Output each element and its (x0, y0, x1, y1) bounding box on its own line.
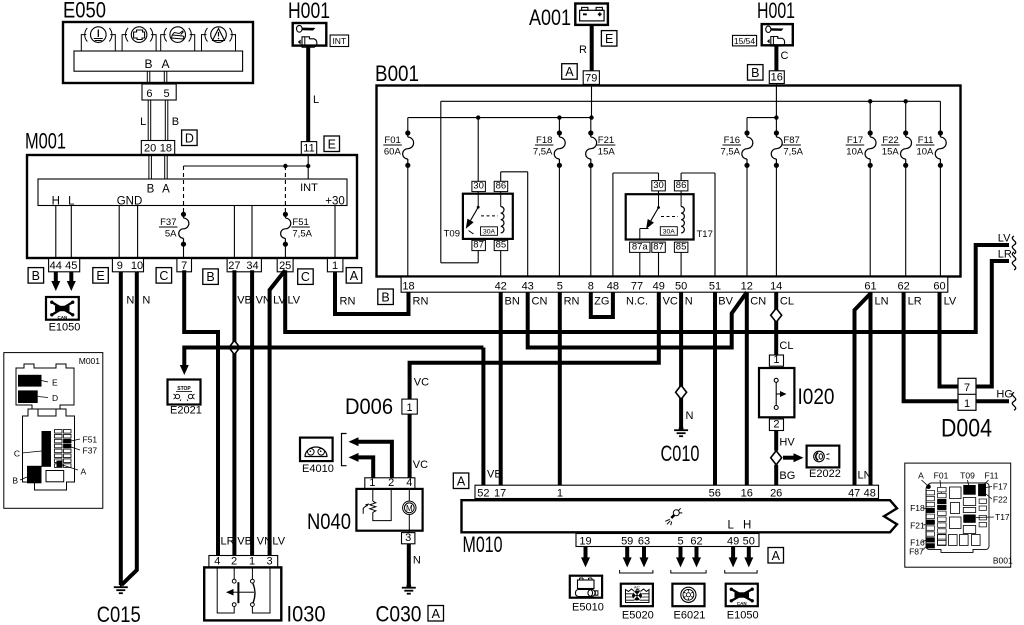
switch I020 pin box 2 (769, 419, 783, 431)
fuse F11 10A (916, 101, 946, 277)
fuse F17 10A (846, 101, 876, 277)
svg-text:86: 86 (676, 180, 687, 191)
svg-text:BN: BN (505, 296, 520, 308)
E050 telltale engine circle (122, 27, 156, 51)
svg-text:CL: CL (780, 296, 794, 308)
M001 label +30 (325, 196, 345, 208)
svg-text:4: 4 (214, 555, 220, 567)
svg-text:M001: M001 (25, 129, 66, 154)
wire VC B001 pin 49 to D006 (410, 292, 678, 399)
E050 telltale warn circle (202, 27, 236, 51)
svg-text:12: 12 (741, 280, 753, 292)
svg-text:LR: LR (998, 249, 1012, 261)
connector letter A (pin 79) (562, 64, 578, 79)
node E6021 compressor box (672, 584, 704, 607)
E050 telltale temp circle (81, 27, 115, 51)
M001 inset F37 pointer (71, 446, 97, 456)
wire T17 pin 87 to B001 pin 49 (658, 252, 660, 277)
svg-text:HV: HV (779, 437, 795, 449)
svg-text:2: 2 (231, 555, 237, 567)
wire arrow M010 pin 59 (623, 547, 632, 568)
B001 inset label T17 with pointer (976, 512, 1010, 522)
H001 key symbol box (left) (293, 23, 327, 47)
junction diamond VB net (229, 341, 240, 355)
wire N from M001 pin 9 to ground C015 (121, 272, 135, 585)
module M010 bottom pin strip (576, 534, 759, 548)
svg-text:87: 87 (473, 240, 484, 251)
svg-text:M010: M010 (463, 532, 503, 557)
node E4010 box (300, 438, 333, 462)
fuse F18 7,5A (533, 118, 565, 277)
relay T09 pin box 86 (494, 181, 508, 192)
module N040 box (356, 489, 422, 531)
wire arrow M010 pin 5 (676, 547, 685, 568)
module M010 top pin strip (475, 485, 879, 499)
svg-text:45: 45 (65, 260, 77, 272)
svg-text:VB: VB (237, 536, 252, 548)
wire VB branch to E2021 with arrow (180, 348, 484, 376)
svg-text:F01: F01 (934, 471, 949, 481)
B001 inset label A with pointer (918, 471, 931, 490)
fuse F16 7,5A (720, 130, 752, 277)
svg-text:1: 1 (249, 555, 255, 567)
svg-text:N040: N040 (307, 509, 351, 534)
svg-text:86: 86 (496, 181, 507, 192)
svg-text:VC: VC (663, 296, 678, 308)
M001 label L (68, 196, 75, 208)
svg-text:60: 60 (933, 280, 945, 292)
bracket pins 49-50 (725, 570, 757, 573)
svg-text:B: B (381, 290, 389, 304)
E2022 label (809, 468, 841, 480)
svg-text:INT: INT (300, 182, 318, 194)
svg-text:F17: F17 (993, 482, 1008, 492)
B001 inset title (993, 556, 1013, 566)
M001 inset main connector outline (23, 409, 75, 490)
fuse F87 7,5A (771, 130, 803, 277)
connector letter E (pin 11) (324, 136, 340, 152)
module N040 pin box 1 2 4 (365, 477, 415, 489)
bracket pins 59-63 (620, 570, 653, 573)
device H001 ignition switch label (left) (288, 0, 330, 23)
svg-text:C: C (781, 50, 789, 62)
wire LR from off-page to D004 pin 7 (976, 249, 1016, 387)
svg-text:6: 6 (146, 88, 152, 100)
B001 wire pin 16 to fuses F16 F87 (747, 84, 779, 134)
svg-text:A: A (457, 474, 466, 488)
svg-text:H: H (743, 520, 751, 532)
connector letter B (RN link) (378, 289, 394, 305)
module M001 box (27, 155, 357, 258)
svg-text:5: 5 (163, 88, 169, 100)
connector letter C (M001 pin 7) (156, 268, 172, 284)
B001 inset label F22 with pointer (986, 494, 1008, 505)
wire LN B001 pin 61 to M010 pin 48 (fork) (871, 292, 889, 485)
svg-text:30: 30 (473, 181, 484, 192)
wire T17 pin 87a to B001 pin 77 (639, 252, 641, 277)
B001 internal bus from battery pin 79 (408, 84, 594, 119)
svg-text:M: M (406, 504, 413, 513)
wire T17 pin 30 to B001 pin 48 (613, 173, 659, 277)
svg-text:E: E (605, 32, 613, 46)
wire LN fork branch to M010 pin 47 (855, 294, 872, 486)
wire 5 to M001 pin 18 (double), label B (165, 100, 179, 141)
M001 inner connector rect (38, 179, 347, 206)
svg-text:M001: M001 (79, 356, 101, 366)
I030 internals (217, 568, 270, 613)
B001 inset fuse elements (926, 484, 986, 548)
svg-text:B001: B001 (375, 61, 419, 86)
svg-text:E4010: E4010 (302, 463, 334, 475)
svg-text:E: E (96, 269, 104, 283)
relay T09 box (463, 194, 513, 239)
N040 internals motor (403, 489, 416, 533)
M001 INT feed wire from pin 11 (307, 155, 309, 179)
junction diamond on CL wire (771, 308, 782, 322)
wire C H001 to B001 pin 16 (776, 45, 788, 71)
svg-text:79: 79 (585, 72, 597, 84)
svg-text:B: B (32, 269, 40, 283)
svg-text:A: A (432, 607, 441, 621)
node E1050 CAN junction (left) (46, 297, 79, 320)
svg-text:30: 30 (653, 180, 664, 191)
svg-text:F11: F11 (984, 471, 998, 481)
wire HV I020 pin 2 to diamond (776, 431, 795, 451)
svg-text:85: 85 (676, 241, 687, 252)
svg-text:F21: F21 (598, 135, 614, 146)
svg-text:CL: CL (779, 340, 793, 352)
junction diamond on N wire (676, 385, 687, 399)
svg-text:43: 43 (522, 280, 534, 292)
device H001 ignition switch label (right) (757, 0, 795, 23)
fuse F01 60A (383, 118, 413, 277)
svg-text:30A: 30A (483, 229, 496, 236)
svg-text:L: L (313, 94, 319, 106)
connector letter D (182, 130, 198, 146)
svg-text:5: 5 (557, 280, 563, 292)
relay T17 internals (640, 191, 685, 240)
ground C010 label (661, 441, 700, 466)
svg-text:VC: VC (413, 459, 428, 471)
svg-text:48: 48 (864, 487, 876, 499)
svg-text:60A: 60A (384, 147, 402, 158)
label N near ground (686, 410, 694, 422)
M001 inset part B (12, 466, 41, 486)
relay T09 pin box 30 (472, 181, 486, 192)
wire arrow M010 pin 63 (640, 547, 649, 568)
wire arrow N040 pin 2 to E4010 (349, 437, 392, 478)
svg-text:B: B (144, 57, 152, 71)
svg-text:3: 3 (405, 532, 411, 544)
wire E050 A to pin 5 (double) (164, 71, 167, 84)
svg-text:E: E (328, 137, 336, 151)
svg-text:H001: H001 (288, 0, 330, 23)
M001 internal stubs to bottom pins (56, 206, 335, 259)
relay T17 pin box 87 (652, 241, 666, 252)
wire VN from M001 pin 34 to I030 pin 1 (252, 270, 272, 555)
M001 label INT (300, 182, 318, 194)
M001 label H (52, 196, 60, 208)
svg-text:VB: VB (487, 469, 502, 481)
connector letter A (M010 pin 52) (453, 473, 469, 489)
svg-text:RN: RN (340, 296, 356, 308)
device A001 battery label (529, 5, 571, 30)
svg-text:85: 85 (496, 240, 507, 251)
node E2022 buzzer box (807, 446, 840, 468)
svg-text:44: 44 (50, 260, 62, 272)
M001 inset top connector outline (16, 364, 74, 409)
svg-text:CAN: CAN (737, 601, 747, 606)
svg-text:N: N (686, 410, 694, 422)
connector letter E (M001 pins 9-10) (93, 268, 109, 284)
bracket to E4010 (342, 434, 347, 466)
wire BN B001 pin 42 to M010 pin 17 (501, 292, 520, 485)
device E050 box (63, 22, 253, 83)
svg-text:E: E (52, 378, 58, 388)
svg-text:RN: RN (413, 296, 429, 308)
M001 inset F51 pointer (71, 435, 97, 445)
connector letter C (M001 pin 25) (298, 269, 314, 285)
svg-text:30A: 30A (663, 229, 676, 236)
switch I030 label (287, 602, 326, 625)
wire arrow pin 44 to E1050 (51, 272, 60, 291)
15/54 label box (733, 35, 757, 46)
svg-text:F37: F37 (83, 446, 98, 456)
svg-text:I020: I020 (798, 384, 835, 409)
svg-text:D: D (185, 131, 194, 145)
relay T09 pin box 87 (472, 240, 486, 251)
svg-text:62: 62 (690, 535, 702, 547)
wire BG diamond to M010 pin 26 (776, 465, 795, 486)
svg-text:87a: 87a (632, 241, 649, 252)
svg-text:B: B (751, 66, 759, 80)
bracket pins 5-62 (671, 570, 706, 573)
svg-text:CN: CN (750, 296, 766, 308)
M001 inset part A (57, 461, 87, 477)
M001 inset title (79, 356, 101, 366)
svg-text:E5020: E5020 (622, 610, 654, 622)
svg-text:RN: RN (564, 296, 580, 308)
svg-text:63: 63 (638, 535, 650, 547)
svg-text:50: 50 (743, 535, 755, 547)
switch I020 internals (774, 378, 786, 409)
svg-text:F21: F21 (910, 521, 925, 531)
M001 pin box 25 (277, 259, 293, 272)
svg-text:19: 19 (579, 535, 591, 547)
B001 pin box 79 (583, 71, 599, 85)
svg-text:34: 34 (246, 260, 258, 272)
svg-text:A: A (162, 184, 170, 196)
svg-text:27: 27 (228, 260, 240, 272)
svg-text:2: 2 (388, 477, 394, 489)
svg-text:T09: T09 (960, 471, 975, 481)
svg-text:N.C.: N.C. (626, 296, 648, 308)
M001 pin box 9 10 (112, 259, 143, 272)
svg-text:18: 18 (402, 280, 414, 292)
wire HG from D004 pin 1 to off-page (976, 389, 1016, 411)
svg-text:C030: C030 (376, 602, 422, 625)
M001 inset white part (46, 471, 64, 482)
svg-text:F22: F22 (882, 135, 898, 146)
fuse F51 7,5A (281, 212, 313, 247)
svg-text:7,5A: 7,5A (533, 147, 553, 158)
module M010 box with torn edge (462, 500, 898, 532)
svg-text:HG: HG (996, 389, 1013, 401)
svg-text:I030: I030 (287, 602, 326, 625)
H001 key symbol box (right) (762, 24, 793, 46)
connector D006 label (345, 394, 393, 419)
wire H001 to M001 pin 11, label L (308, 46, 319, 142)
wire arrow pin 45 to E1050 (67, 272, 76, 291)
M001 connector inset box (4, 353, 103, 509)
B001 inset label F01 with pointer (934, 471, 949, 495)
svg-text:7,5A: 7,5A (292, 229, 312, 240)
svg-text:L: L (727, 520, 734, 532)
svg-text:F87: F87 (909, 547, 924, 557)
ground C015 symbol (114, 585, 128, 593)
M001 inset part E (18, 375, 58, 388)
switch I020 label (798, 384, 835, 409)
M001 internal wires pins 20 18 to B A (double) (149, 155, 167, 179)
wire E050 B to pin 6 (double) (147, 71, 150, 84)
E050 inner connector rect (74, 51, 243, 71)
svg-text:3: 3 (267, 555, 273, 567)
svg-text:15A: 15A (882, 147, 900, 158)
fuse F21 15A (586, 118, 616, 277)
svg-text:E6021: E6021 (674, 610, 706, 622)
svg-text:A: A (81, 467, 87, 477)
wire BV B001 pin 51 to M010 pin 56 (715, 292, 734, 485)
svg-text:LV: LV (944, 296, 957, 308)
svg-text:1: 1 (557, 487, 563, 499)
M001 INT distribution line with junctions (184, 164, 311, 168)
svg-text:A: A (565, 65, 574, 79)
E1050 label (left) (49, 322, 81, 334)
E1050 label (bottom) (727, 610, 759, 622)
svg-text:11: 11 (303, 143, 314, 155)
junction diamond HV/BG with arrow to E2022 (771, 451, 804, 465)
svg-text:F22: F22 (993, 495, 1008, 505)
node E1050 CAN box (bottom) (726, 584, 758, 607)
svg-text:1: 1 (332, 260, 338, 272)
svg-text:14: 14 (770, 280, 782, 292)
wire CL B001 pin 14 to I020 pin 1 (776, 292, 794, 355)
M001 label B (147, 184, 155, 196)
dashed link to fuse F51 (284, 166, 286, 214)
svg-text:4: 4 (406, 477, 412, 489)
E5010 label (572, 602, 604, 614)
B001 fusebox inset box (905, 463, 1011, 567)
wire T09 pin 86 to B001 pin 43 (501, 172, 528, 277)
svg-text:47: 47 (848, 487, 860, 499)
svg-text:61: 61 (864, 280, 876, 292)
wire N from M001 pin 10 to ground C015 (122, 272, 151, 585)
connector D004 pin box 7/1 (958, 378, 976, 410)
svg-text:15/54: 15/54 (734, 36, 756, 46)
E4010 label (302, 463, 334, 475)
wire VC D006 to N040 pin 4 (410, 414, 429, 478)
wire LV B001 pin 60 to D004 pin 7 (940, 292, 959, 386)
M010 labels L H (727, 520, 751, 532)
M001 pin box 7 (177, 259, 192, 272)
svg-text:D: D (52, 393, 58, 403)
wire 6 to M001 pin 20 (double), label L (140, 100, 151, 141)
svg-text:A: A (350, 269, 359, 283)
svg-text:E2022: E2022 (809, 468, 841, 480)
wire RN B001 pin 5 to M010 pin 1 (560, 292, 580, 485)
svg-text:18: 18 (160, 143, 172, 155)
svg-text:1: 1 (407, 402, 413, 414)
relay T09 feed wire from bus (477, 118, 479, 182)
svg-text:42: 42 (495, 280, 507, 292)
M001 pin box 27 34 (227, 259, 261, 272)
connector letter B (M001 pins 44-45) (28, 268, 43, 284)
svg-text:C015: C015 (97, 602, 141, 625)
M001 label GND (117, 196, 143, 208)
label N.C. pin 77 (626, 296, 648, 308)
ground C030 label (376, 602, 422, 625)
E050 pin label B (144, 57, 152, 71)
svg-text:F51: F51 (83, 435, 98, 445)
connector letter A (M010 bottom) (768, 548, 784, 564)
svg-text:BV: BV (718, 296, 733, 308)
wire T17 pin 85 to B001 pin 50 (680, 252, 682, 277)
svg-text:E1050: E1050 (727, 610, 759, 622)
svg-text:F17: F17 (847, 135, 863, 146)
relay T17 pin box 85 (674, 241, 688, 252)
svg-text:A/C: A/C (634, 585, 640, 589)
svg-text:CAN: CAN (58, 315, 68, 320)
N040 internals heater (363, 489, 391, 521)
svg-text:F87: F87 (783, 135, 799, 146)
svg-text:25: 25 (279, 260, 291, 272)
relay T17 pin box 87a (630, 241, 650, 252)
B001 pin box 16 (769, 71, 784, 84)
B001 inset fusebox outline (926, 483, 989, 553)
svg-text:B: B (147, 184, 155, 196)
wire arrow M010 pin 19 to E5010 (581, 547, 590, 568)
M001 top pin box 20 18 (141, 141, 174, 155)
svg-text:59: 59 (621, 535, 633, 547)
svg-text:N: N (685, 296, 693, 308)
M001 inset part D (18, 390, 58, 403)
wire T09 pin 85 to B001 pin 42 (500, 251, 502, 277)
relay T17 label (697, 229, 713, 240)
connector letter A (M001 pin 1) (346, 268, 362, 284)
module N040 pin box 3 (402, 532, 415, 544)
svg-text:E1050: E1050 (49, 322, 81, 334)
LV continuation label and squiggle (998, 233, 1016, 255)
ground C010 symbol (674, 426, 688, 436)
node E5010 starter box (570, 576, 602, 598)
svg-text:5: 5 (677, 535, 683, 547)
svg-text:A: A (772, 549, 781, 563)
label VB at M010 pin 52 (487, 469, 502, 481)
label RN at B001 pin 18 (413, 296, 429, 308)
svg-text:CN: CN (532, 296, 548, 308)
svg-text:1: 1 (369, 477, 375, 489)
M001 pin box 1 (327, 259, 343, 272)
svg-text:T09: T09 (444, 229, 460, 240)
relay T09 internals (466, 192, 504, 236)
wire arrow N040 pin 1 to E4010 (349, 453, 374, 478)
svg-text:R: R (579, 44, 587, 56)
svg-text:BG: BG (779, 470, 795, 482)
svg-text:87: 87 (653, 241, 664, 252)
svg-text:15A: 15A (598, 147, 616, 158)
wire CN B001 pin 43 to junction (528, 292, 747, 347)
svg-text:F16: F16 (724, 135, 740, 146)
